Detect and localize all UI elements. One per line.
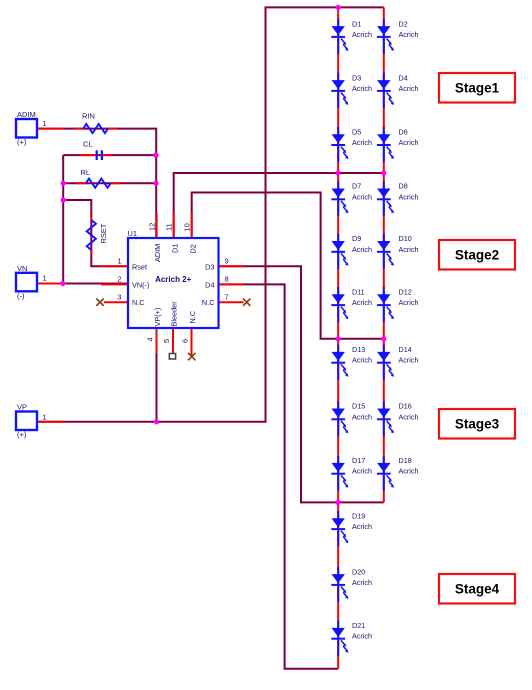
svg-text:U1: U1 [128, 229, 138, 238]
svg-text:D5: D5 [352, 127, 361, 136]
svg-text:2: 2 [117, 275, 121, 284]
svg-text:1: 1 [117, 257, 121, 266]
svg-text:D14: D14 [399, 345, 412, 354]
svg-text:Acrich: Acrich [399, 356, 419, 365]
svg-text:(+): (+) [17, 138, 27, 147]
svg-text:Acrich: Acrich [352, 356, 372, 365]
svg-text:RSET: RSET [99, 223, 108, 243]
svg-text:3: 3 [117, 293, 121, 302]
svg-text:ADIM: ADIM [153, 244, 162, 262]
svg-text:D1: D1 [352, 19, 361, 28]
svg-text:D21: D21 [352, 621, 365, 630]
svg-text:Acrich: Acrich [399, 298, 419, 307]
svg-text:9: 9 [225, 257, 229, 266]
svg-text:Acrich: Acrich [352, 632, 372, 641]
svg-text:Stage1: Stage1 [455, 81, 500, 96]
svg-text:D8: D8 [399, 182, 408, 191]
svg-text:D1: D1 [170, 244, 179, 253]
svg-text:Acrich: Acrich [399, 192, 419, 201]
svg-text:D9: D9 [352, 234, 361, 243]
svg-text:Acrich: Acrich [352, 84, 372, 93]
svg-text:D19: D19 [352, 512, 365, 521]
svg-text:1: 1 [43, 119, 47, 128]
svg-text:D10: D10 [399, 234, 412, 243]
svg-text:D4: D4 [399, 73, 408, 82]
svg-text:D2: D2 [188, 244, 197, 253]
svg-text:D15: D15 [352, 402, 365, 411]
svg-text:6: 6 [181, 339, 190, 343]
svg-text:Stage2: Stage2 [455, 248, 499, 263]
svg-text:7: 7 [225, 293, 229, 302]
svg-text:Acrich: Acrich [399, 84, 419, 93]
svg-text:D6: D6 [399, 127, 408, 136]
svg-text:12: 12 [148, 223, 157, 231]
svg-text:RL: RL [81, 168, 91, 177]
svg-text:Acrich: Acrich [352, 522, 372, 531]
svg-text:Acrich: Acrich [399, 412, 419, 421]
svg-text:ADIM: ADIM [17, 110, 36, 119]
svg-text:Acrich: Acrich [352, 298, 372, 307]
svg-text:Acrich: Acrich [399, 138, 419, 147]
svg-text:1: 1 [43, 274, 47, 283]
svg-text:RIN: RIN [82, 112, 95, 121]
svg-text:VN: VN [17, 264, 27, 273]
svg-text:D16: D16 [399, 402, 412, 411]
svg-text:5: 5 [162, 339, 171, 343]
svg-text:Acrich: Acrich [399, 30, 419, 39]
svg-text:D3: D3 [352, 73, 361, 82]
svg-text:VN(-): VN(-) [132, 281, 149, 290]
svg-text:Stage3: Stage3 [455, 417, 500, 432]
svg-text:D3: D3 [205, 262, 214, 271]
svg-text:Acrich: Acrich [352, 245, 372, 254]
svg-text:Acrich: Acrich [352, 30, 372, 39]
svg-text:VP(+): VP(+) [153, 308, 162, 327]
svg-text:Acrich: Acrich [399, 245, 419, 254]
svg-text:VP: VP [17, 403, 27, 412]
svg-text:D4: D4 [205, 281, 214, 290]
svg-text:(+): (+) [17, 430, 27, 439]
svg-text:N.C: N.C [132, 298, 145, 307]
svg-text:1: 1 [43, 413, 47, 422]
svg-text:Acrich: Acrich [399, 467, 419, 476]
svg-text:Acrich: Acrich [352, 578, 372, 587]
svg-text:D12: D12 [399, 288, 412, 297]
svg-text:Acrich: Acrich [352, 467, 372, 476]
svg-text:Acrich: Acrich [352, 412, 372, 421]
svg-text:D11: D11 [352, 288, 365, 297]
svg-text:Acrich: Acrich [352, 138, 372, 147]
svg-text:Stage4: Stage4 [455, 582, 500, 597]
svg-text:D2: D2 [399, 19, 408, 28]
svg-text:D7: D7 [352, 182, 361, 191]
svg-text:11: 11 [165, 223, 174, 231]
svg-text:Acrich 2+: Acrich 2+ [155, 275, 192, 284]
svg-text:D20: D20 [352, 567, 365, 576]
svg-text:(-): (-) [17, 292, 25, 301]
svg-text:10: 10 [183, 223, 192, 231]
svg-text:N.C: N.C [202, 298, 215, 307]
svg-text:Acrich: Acrich [352, 192, 372, 201]
svg-text:8: 8 [225, 275, 229, 284]
svg-text:4: 4 [146, 337, 155, 341]
svg-text:D17: D17 [352, 456, 365, 465]
svg-text:CL: CL [83, 140, 93, 149]
svg-text:D13: D13 [352, 345, 365, 354]
svg-text:Bleeder: Bleeder [169, 301, 178, 327]
svg-text:N.C: N.C [188, 311, 197, 324]
svg-text:D18: D18 [399, 456, 412, 465]
svg-text:Rset: Rset [132, 262, 147, 271]
